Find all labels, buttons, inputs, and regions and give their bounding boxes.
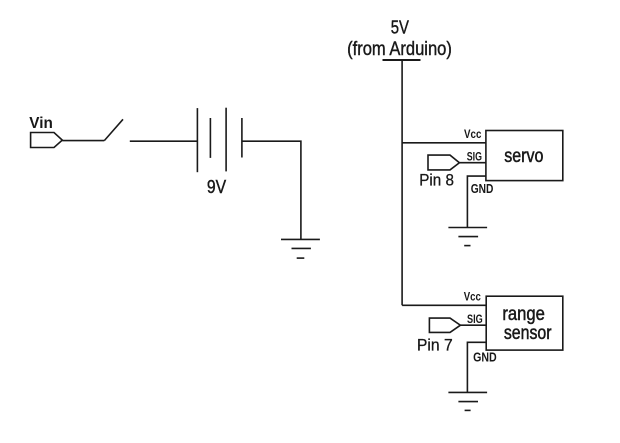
wire switch throw contact to battery	[130, 140, 198, 142]
wire Vin flag to switch pole	[62, 140, 104, 142]
svg-text:GND: GND	[471, 182, 494, 196]
ground (range sensor)	[448, 392, 487, 410]
svg-text:Vcc: Vcc	[464, 129, 482, 141]
power rail bar 5V	[383, 59, 421, 61]
ground (servo)	[448, 228, 487, 246]
ground (battery return)	[281, 239, 320, 258]
svg-text:Vcc: Vcc	[464, 292, 482, 304]
svg-text:sensor: sensor	[504, 322, 552, 344]
wire 5V rail vertical	[401, 60, 403, 305]
battery BT1 plate short 1	[209, 118, 211, 158]
svg-text:9V: 9V	[207, 177, 226, 197]
wire Pin 7 flag to range sensor SIG pin	[460, 324, 486, 326]
wire servo Vcc branch	[402, 142, 486, 144]
net flag Pin 7	[429, 318, 460, 332]
battery BT1 plate long 2	[225, 108, 227, 172]
svg-text:Vin: Vin	[29, 115, 53, 132]
wire servo GND stub	[467, 176, 486, 227]
svg-text:Pin 8: Pin 8	[419, 170, 454, 189]
wire Pin 8 flag to servo SIG pin	[459, 162, 486, 164]
net flag Pin 8	[428, 155, 459, 170]
svg-text:servo: servo	[504, 145, 543, 167]
wire battery positive to ground	[242, 141, 301, 239]
wire range sensor GND stub	[467, 342, 486, 392]
switch S1 blade (open)	[104, 119, 123, 140]
svg-text:5V: 5V	[391, 17, 410, 38]
battery BT1 plate short 2	[241, 118, 243, 158]
svg-text:(from Arduino): (from Arduino)	[347, 39, 452, 60]
servo box U1	[486, 131, 563, 181]
svg-text:SIG: SIG	[467, 314, 483, 326]
svg-text:Pin 7: Pin 7	[417, 335, 453, 354]
battery BT1 plate long 1	[196, 108, 198, 172]
svg-text:SIG: SIG	[467, 151, 482, 163]
net flag Vin	[31, 133, 63, 148]
svg-text:GND: GND	[473, 350, 497, 364]
wire range sensor Vcc branch	[402, 304, 486, 306]
range sensor box U2	[486, 296, 563, 350]
